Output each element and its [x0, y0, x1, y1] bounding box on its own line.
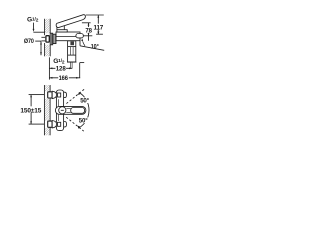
body (side view) [56, 32, 80, 41]
left extension line (wall face) [48, 57, 50, 79]
label G1/2 bottom [53, 58, 65, 65]
svg-text:150±15: 150±15 [20, 107, 41, 114]
wall lines [44, 19, 46, 35]
extension line (78 top) [82, 22, 91, 24]
union top (plan) [48, 92, 52, 98]
swing arc [78, 92, 89, 128]
svg-text:Ø70: Ø70 [24, 38, 34, 45]
union nut (side view) [53, 34, 56, 43]
escutcheon (side view) [50, 33, 53, 45]
label G1/2 top [27, 16, 39, 23]
lever handle [56, 15, 85, 28]
wall lines (plan) [43, 85, 45, 135]
right extension lines (spout) [69, 62, 71, 68]
extension line (117 bottom) [96, 33, 103, 35]
svg-text:G1/2: G1/2 [27, 16, 39, 23]
wall hatch (plan) [44, 85, 50, 135]
svg-text:117: 117 [93, 24, 103, 31]
svg-text:166: 166 [59, 75, 69, 82]
dim 78 [88, 23, 90, 41]
dim 128 [49, 67, 72, 69]
dim 150+-15 [30, 95, 32, 125]
cartridge dome [57, 25, 64, 30]
dim 166 [49, 77, 80, 79]
extension line (78 bottom) [83, 35, 92, 37]
svg-text:10°: 10° [91, 42, 99, 50]
in-wall union (side view) [46, 36, 49, 42]
dim 117 [97, 15, 99, 34]
10 degree annotation [79, 41, 81, 46]
leader for G1/2 [33, 23, 35, 30]
outlet tube [68, 41, 76, 62]
body end cap [76, 34, 84, 38]
body tube (plan) [56, 90, 63, 131]
check valve caps [64, 92, 67, 97]
O70 leader and vertical diameter dimension [35, 40, 41, 42]
50 degree labels [79, 97, 90, 123]
svg-text:50°: 50° [79, 117, 88, 125]
svg-text:78: 78 [85, 27, 92, 34]
svg-text:G1/2: G1/2 [53, 58, 65, 65]
extension line A (lever top) [86, 14, 104, 16]
wall hatch (side view) [45, 19, 51, 33]
dashed open positions [66, 89, 84, 103]
svg-text:128: 128 [56, 66, 66, 73]
label O70 [24, 38, 34, 45]
svg-text:50°: 50° [80, 96, 89, 104]
lever assembly (plan) [55, 106, 86, 114]
union bottom (plan) [48, 121, 52, 127]
